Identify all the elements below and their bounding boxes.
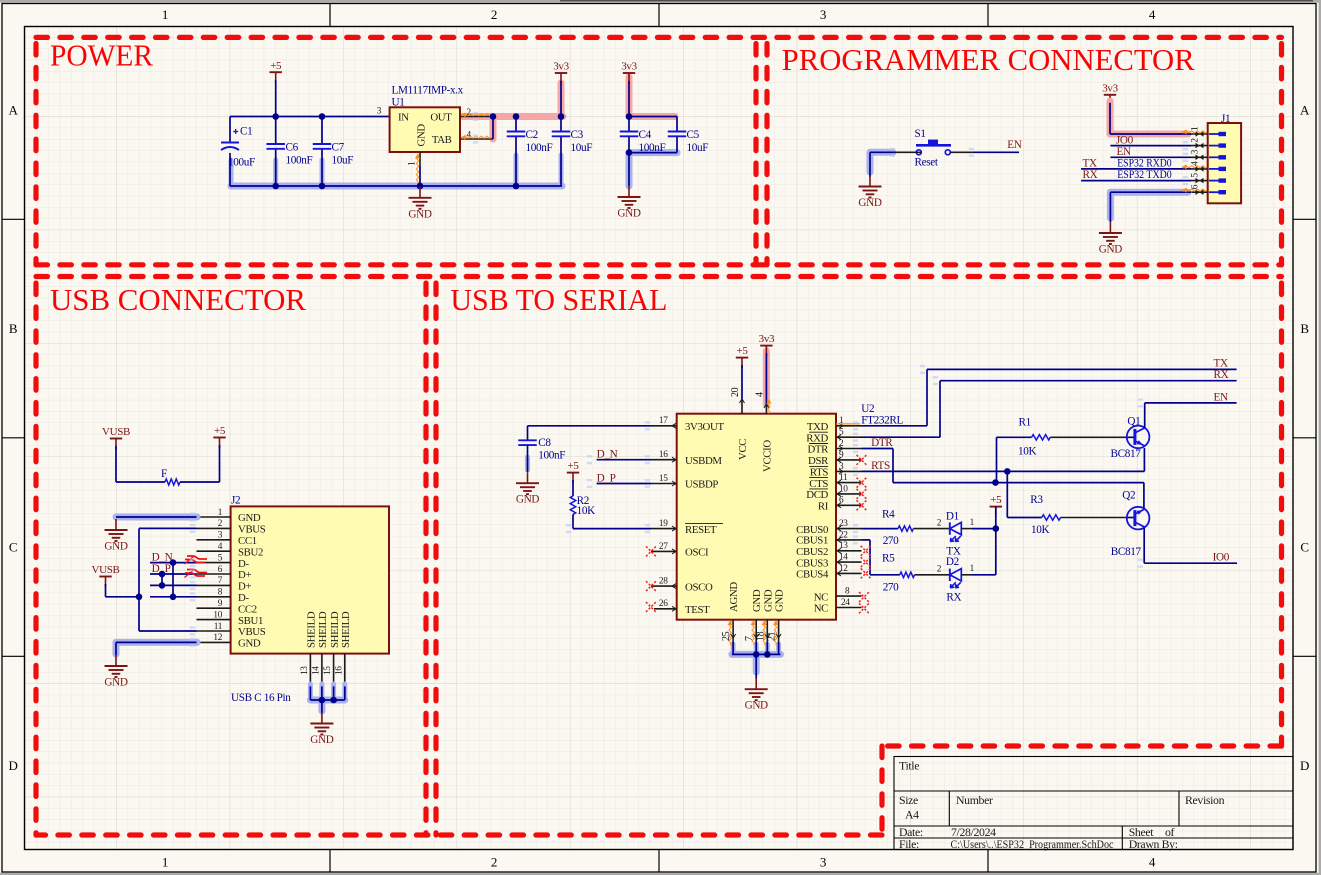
U2 pin 13 CBUS2 [836, 550, 862, 552]
svg-text:100uF: 100uF [228, 157, 255, 169]
svg-text:USB TO SERIAL: USB TO SERIAL [450, 283, 667, 317]
U2 pin 10 DCD [836, 493, 862, 495]
svg-text:14: 14 [839, 553, 848, 563]
svg-text:2: 2 [1191, 138, 1201, 143]
svg-text:File:: File: [899, 837, 919, 851]
svg-text:VBUS: VBUS [238, 524, 266, 536]
svg-text:D+: D+ [238, 581, 251, 593]
svg-text:Q2: Q2 [1122, 489, 1135, 501]
transistor Q2 [1127, 507, 1150, 530]
U2 pin 3 RTS wire [836, 470, 862, 472]
svg-text:4: 4 [1149, 855, 1156, 870]
svg-text:15: 15 [659, 474, 668, 484]
svg-text:U1: U1 [392, 97, 405, 109]
svg-text:VCC: VCC [737, 439, 749, 460]
connector J2 [231, 506, 389, 653]
wire D- pair vertical [172, 563, 174, 597]
wire R4 to D1 [913, 528, 949, 530]
J2 pin 5 D- [197, 562, 231, 564]
svg-text:4: 4 [1149, 7, 1156, 22]
J1 pin 1 [1191, 133, 1208, 135]
J1 pin 2 [1191, 145, 1208, 147]
wire D+ pair vertical [161, 574, 163, 585]
svg-text:D1: D1 [946, 510, 959, 522]
U1 pin 4 wire [460, 138, 493, 140]
wire D_N pin5 [150, 562, 197, 564]
svg-text:20: 20 [730, 387, 741, 397]
svg-text:U2: U2 [861, 403, 874, 415]
svg-text:+5: +5 [270, 60, 282, 72]
svg-text:JO0: JO0 [1116, 135, 1134, 147]
ground symbol J1 [1109, 222, 1111, 233]
svg-text:C:\Users\..\ESP32_Programmer.S: C:\Users\..\ESP32_Programmer.SchDoc [951, 837, 1114, 851]
svg-text:4: 4 [754, 392, 765, 397]
svg-text:D_P: D_P [597, 472, 616, 484]
svg-text:PROGRAMMER CONNECTOR: PROGRAMMER CONNECTOR [782, 43, 1196, 77]
svg-text:Revision: Revision [1185, 793, 1225, 807]
net highlight GND (U2 bottom) [731, 644, 736, 654]
svg-text:SBU1: SBU1 [238, 615, 263, 627]
frame column ticks [329, 4, 331, 27]
svg-text:Title: Title [899, 759, 919, 773]
svg-text:10: 10 [839, 484, 848, 494]
power port 3v3 (VCCIO) [760, 345, 772, 347]
svg-text:R3: R3 [1030, 494, 1043, 506]
net highlight GND (C4) [629, 149, 677, 156]
svg-text:27: 27 [659, 542, 668, 552]
svg-text:10K: 10K [1018, 446, 1036, 458]
svg-text:3v3: 3v3 [759, 333, 775, 345]
U2 pin 19 RESET wire [572, 514, 574, 528]
S1 left pin wire to ground [893, 151, 922, 153]
svg-text:11: 11 [839, 473, 848, 483]
svg-text:D-: D- [238, 558, 249, 570]
svg-text:USB C 16 Pin: USB C 16 Pin [231, 692, 291, 704]
svg-text:12: 12 [839, 564, 848, 574]
svg-text:3: 3 [377, 106, 382, 116]
net highlight GND (J2 pin12) [116, 639, 197, 646]
power port +5 (leds) [990, 506, 1002, 508]
svg-text:TAB: TAB [432, 134, 452, 146]
wire VBUS vertical [139, 527, 197, 529]
svg-text:ESP32 TXD0: ESP32 TXD0 [1117, 169, 1172, 181]
S1 right pin wire EN [951, 151, 973, 153]
svg-text:DSR: DSR [808, 455, 829, 467]
J2 pin 4 SBU2 [197, 550, 231, 552]
transistor Q1 [1127, 426, 1150, 449]
svg-text:24: 24 [841, 598, 850, 608]
diode D1 (TX led) [949, 522, 951, 534]
svg-text:OSCI: OSCI [685, 547, 709, 559]
J1 pin 5 [1191, 180, 1208, 182]
differential pair marker pin5 [187, 556, 207, 559]
svg-text:10uF: 10uF [332, 155, 354, 167]
U2 pin 22 CBUS1 wire [836, 539, 862, 541]
U2 pin 1 TXD wire [836, 425, 862, 427]
svg-text:17: 17 [659, 416, 668, 426]
svg-text:D: D [8, 758, 17, 773]
svg-text:TEST: TEST [685, 604, 710, 616]
svg-text:GND: GND [416, 124, 428, 147]
svg-text:+5: +5 [214, 425, 226, 437]
svg-text:RI: RI [818, 501, 829, 513]
svg-text:TXD: TXD [807, 421, 829, 433]
regulator U1 [390, 107, 460, 152]
svg-text:EN: EN [1007, 139, 1021, 151]
svg-text:1: 1 [1191, 126, 1201, 131]
wire D2 to +5 [961, 574, 972, 576]
svg-text:D2: D2 [946, 556, 959, 568]
U2 pin 26 TEST [654, 608, 677, 610]
svg-text:GND: GND [104, 677, 127, 689]
svg-text:10K: 10K [577, 505, 595, 517]
svg-text:D+: D+ [238, 569, 251, 581]
wire J2 pin1 ground [116, 516, 197, 518]
J1 pin 6 [1191, 191, 1208, 193]
svg-text:DTR: DTR [871, 437, 893, 449]
svg-text:RTS: RTS [810, 467, 828, 479]
net highlight 3v3 (J1) [1107, 101, 1114, 134]
net highlight 3v3 (C4 C5) [626, 77, 633, 117]
wire +5 to input rail [275, 80, 277, 117]
svg-text:2: 2 [839, 439, 844, 449]
ground symbol U2 [755, 678, 757, 689]
svg-text:+5: +5 [736, 345, 748, 357]
svg-text:2: 2 [491, 7, 497, 22]
svg-text:10uF: 10uF [687, 142, 709, 154]
svg-text:EN: EN [1214, 392, 1228, 404]
svg-text:3: 3 [839, 462, 844, 472]
svg-text:GND: GND [1099, 244, 1122, 256]
power port +5 (input) [270, 71, 282, 73]
J2 pin 14 SHEILD [321, 654, 323, 687]
svg-text:3v3: 3v3 [1102, 82, 1118, 94]
svg-text:DCD: DCD [806, 489, 828, 501]
fuse F [115, 446, 117, 482]
svg-text:CTS: CTS [809, 478, 828, 490]
junction D1 +5 [993, 525, 1000, 532]
junction shield bus [319, 697, 326, 704]
J2 pin 9 CC2 [197, 607, 231, 609]
net highlight GND (S1) [870, 149, 893, 156]
svg-text:SHEILD: SHEILD [329, 611, 341, 648]
svg-text:S1: S1 [915, 128, 926, 140]
svg-text:1: 1 [970, 564, 975, 574]
svg-text:GND: GND [408, 208, 431, 220]
net highlight GND (J1) [1110, 189, 1188, 196]
resistor R4 [898, 526, 913, 531]
net highlight GND (shield) [308, 684, 313, 700]
svg-text:14: 14 [311, 666, 321, 675]
junction U1 output [490, 113, 497, 120]
svg-text:10uF: 10uF [571, 142, 593, 154]
J2 pin 1 GND [197, 516, 231, 518]
wire +5 led rail [995, 507, 997, 575]
wire C4 C5 ground [629, 152, 677, 154]
ground symbol J2 pin12 [115, 655, 117, 666]
svg-text:A: A [1300, 103, 1310, 118]
svg-text:C4: C4 [639, 129, 652, 141]
svg-text:RX: RX [1083, 169, 1098, 181]
J2 pin 7 D+ [197, 584, 231, 586]
junction U2 ground bus [753, 651, 760, 658]
svg-text:NC: NC [814, 603, 828, 615]
compile marks [190, 512, 195, 521]
svg-text:5: 5 [1191, 173, 1201, 178]
svg-text:CBUS4: CBUS4 [796, 569, 829, 581]
capacitor C7 leads [321, 117, 323, 145]
capacitor C5 [668, 131, 687, 133]
svg-text:RTS: RTS [871, 460, 890, 472]
U2 pin 27 OSCI [651, 550, 677, 552]
svg-text:EN: EN [1117, 146, 1131, 158]
junction VBUS [136, 594, 143, 601]
power port 3v3 (second) [623, 72, 635, 74]
capacitor C4 leads [628, 117, 630, 132]
J2 pin 12 GND [197, 641, 231, 643]
wire EN line [1145, 402, 1237, 404]
svg-text:CC1: CC1 [238, 535, 257, 547]
svg-text:CBUS1: CBUS1 [796, 535, 828, 547]
wire Q1 collector EN [1144, 403, 1146, 428]
power port 3v3 (J1) [1104, 94, 1116, 96]
svg-text:13: 13 [300, 666, 310, 675]
IC U2 FT232RL [677, 414, 836, 620]
U2 pin 23 CBUS0 wire [836, 528, 862, 530]
U2 pin 5 RXD wire [836, 436, 862, 438]
ground symbol U1 [419, 187, 421, 198]
resistor R1 [996, 437, 998, 482]
svg-text:CBUS2: CBUS2 [796, 546, 828, 558]
wire 3v3 riser [560, 81, 562, 117]
U2 pin 28 OSCO [651, 585, 677, 587]
wire J2 pin12 ground [116, 641, 197, 643]
svg-text:SHEILD: SHEILD [340, 611, 352, 648]
svg-text:D: D [1300, 758, 1309, 773]
capacitor C6 leads [275, 117, 277, 145]
svg-text:7: 7 [218, 576, 223, 586]
svg-text:3v3: 3v3 [553, 61, 569, 73]
junction differential pairs [170, 559, 177, 566]
svg-text:6: 6 [1191, 184, 1201, 189]
svg-text:+5: +5 [567, 460, 579, 472]
svg-text:C: C [9, 540, 17, 555]
svg-text:AGND: AGND [728, 582, 740, 612]
junction RTS R3 [1004, 468, 1011, 475]
svg-text:1: 1 [970, 518, 975, 528]
J2 pin 10 SBU1 [197, 619, 231, 621]
svg-text:LM1117IMP-x.x: LM1117IMP-x.x [392, 85, 464, 97]
wire J1 pin4 ESP32 RXD0 [1081, 168, 1191, 170]
U2 pin 2 DTR wire [836, 448, 862, 450]
svg-text:VCCIO: VCCIO [761, 440, 773, 472]
svg-text:16: 16 [659, 450, 668, 460]
svg-text:16: 16 [334, 666, 344, 675]
U1 pin 2 wire [460, 116, 493, 118]
svg-text:ESP32 RXD0: ESP32 RXD0 [1117, 158, 1172, 170]
junction input rail [272, 113, 279, 120]
power port VUSB (fuse) [110, 438, 122, 440]
svg-text:USB CONNECTOR: USB CONNECTOR [50, 283, 307, 317]
J2 pin 3 CC1 [197, 539, 231, 541]
ground symbol S1 [869, 176, 871, 187]
svg-text:8: 8 [845, 587, 850, 597]
svg-text:GND: GND [774, 589, 786, 612]
U2 pin 6 RI [836, 504, 862, 506]
svg-text:RX: RX [1214, 369, 1229, 381]
svg-text:A4: A4 [905, 807, 919, 821]
U1 pin 1 GND wire [419, 152, 421, 166]
svg-text:Drawn By:: Drawn By: [1129, 837, 1178, 851]
frame row ticks [2, 218, 25, 220]
ground symbol J2 pin1 [115, 519, 117, 530]
resistor R3 [1006, 471, 1008, 517]
wire D1 to +5 [961, 528, 972, 530]
svg-text:C: C [1300, 540, 1308, 555]
svg-text:R4: R4 [882, 508, 895, 520]
U2 pin 15 USBDP wire [651, 483, 677, 485]
svg-text:10: 10 [213, 610, 222, 620]
power port +5 (R2) [567, 472, 579, 474]
J2 pin 6 D+ [197, 573, 231, 575]
svg-text:NC: NC [814, 591, 828, 603]
svg-text:9: 9 [218, 599, 223, 609]
svg-text:SBU2: SBU2 [238, 546, 263, 558]
svg-text:1: 1 [162, 855, 168, 870]
net highlight 3v3 (VCCIO) [763, 351, 770, 404]
differential pair marker pin6 [187, 570, 207, 573]
svg-text:IN: IN [398, 112, 409, 124]
svg-text:23: 23 [839, 519, 848, 529]
wire TX line [927, 368, 1237, 370]
U2 pin 12 CBUS4 [836, 572, 862, 574]
svg-text:270: 270 [883, 535, 899, 547]
svg-text:GND: GND [238, 638, 261, 650]
svg-text:3v3: 3v3 [621, 61, 637, 73]
svg-text:3: 3 [820, 7, 826, 22]
svg-text:FT232RL: FT232RL [861, 414, 903, 426]
wire J1 pin6 ground [1110, 191, 1191, 193]
junction C4 top [626, 113, 633, 120]
capacitor C3 leads [560, 117, 562, 132]
wire 3v3 to C4 C5 [628, 81, 630, 117]
svg-text:100nF: 100nF [538, 449, 565, 461]
capacitor C6 [266, 143, 285, 145]
svg-text:USBDM: USBDM [685, 455, 722, 467]
svg-text:100nF: 100nF [526, 142, 553, 154]
U2 pin 11 CTS [836, 482, 862, 484]
svg-text:C7: C7 [332, 142, 345, 154]
wire GND bus [230, 185, 562, 187]
svg-text:IO0: IO0 [1213, 552, 1230, 564]
svg-text:28: 28 [659, 577, 668, 587]
resistor R5 [900, 572, 915, 577]
svg-text:CC2: CC2 [238, 603, 257, 615]
wire R5 to D2 [915, 574, 950, 576]
svg-text:15: 15 [323, 666, 333, 675]
svg-text:J1: J1 [1221, 113, 1230, 125]
svg-text:C2: C2 [526, 129, 538, 141]
svg-text:VBUS: VBUS [238, 626, 266, 638]
wire shield ground bus [309, 686, 311, 700]
svg-text:A: A [8, 103, 18, 118]
svg-text:3: 3 [218, 531, 223, 541]
U2 pin 14 CBUS3 [836, 561, 862, 563]
ERC markers J1 pins [1182, 131, 1207, 133]
J2 pin 15 SHEILD [333, 654, 335, 687]
svg-text:C1: C1 [240, 126, 252, 138]
svg-text:4: 4 [467, 130, 472, 140]
wire J1 pin2 JO0 [1110, 145, 1191, 147]
svg-text:270: 270 [883, 581, 899, 593]
svg-text:3: 3 [820, 855, 826, 870]
svg-text:GND: GND [310, 734, 333, 746]
svg-text:+5: +5 [990, 494, 1002, 506]
svg-text:C8: C8 [538, 437, 551, 449]
svg-text:1: 1 [218, 508, 223, 518]
J2 pin 2 VBUS [197, 527, 231, 529]
svg-text:DTR: DTR [807, 444, 829, 456]
svg-text:GND: GND [238, 512, 261, 524]
svg-text:100nF: 100nF [286, 155, 313, 167]
svg-text:GND: GND [104, 541, 127, 553]
svg-text:B: B [1300, 321, 1309, 336]
svg-text:12: 12 [213, 633, 222, 643]
svg-text:6: 6 [839, 496, 844, 506]
svg-text:11: 11 [214, 622, 223, 632]
svg-text:RXD: RXD [806, 432, 828, 444]
wire pin8 [150, 596, 197, 598]
U2 pin 16 USBDM wire [651, 459, 677, 461]
U2 pin 9 DSR [836, 459, 862, 461]
svg-text:13: 13 [839, 541, 848, 551]
svg-text:Reset: Reset [915, 156, 939, 168]
svg-text:C3: C3 [571, 129, 584, 141]
power port VUSB (VBUS) [99, 576, 111, 578]
connector J1 [1208, 123, 1241, 203]
junction GND bus [272, 183, 279, 190]
net highlight GND (J2 pin1) [116, 514, 197, 521]
wire J1 pin5 ESP32 TXD0 [1081, 180, 1191, 182]
U2 pin 24 NC [836, 607, 862, 609]
svg-text:GND: GND [762, 589, 774, 612]
svg-text:C5: C5 [687, 129, 700, 141]
junction DTR R1 [992, 479, 999, 486]
capacitor C2 [507, 131, 526, 133]
svg-text:2: 2 [218, 519, 223, 529]
svg-text:10K: 10K [1031, 524, 1049, 536]
svg-text:22: 22 [839, 530, 848, 540]
svg-text:R1: R1 [1019, 417, 1031, 429]
svg-text:2: 2 [467, 108, 472, 118]
svg-text:8: 8 [218, 588, 223, 598]
net highlight GND (C8) [525, 457, 530, 470]
svg-text:F: F [161, 468, 167, 480]
svg-text:Number: Number [956, 793, 993, 807]
svg-text:RX: RX [946, 592, 961, 604]
capacitor C8 [518, 439, 537, 441]
svg-text:4: 4 [1191, 161, 1201, 166]
wire pin7 [150, 584, 197, 586]
svg-text:J2: J2 [231, 495, 240, 507]
capacitor C7 [313, 143, 332, 145]
svg-text:2: 2 [937, 565, 942, 575]
svg-text:26: 26 [659, 599, 668, 609]
J2 pin 11 VBUS [197, 630, 231, 632]
svg-text:4: 4 [218, 542, 223, 552]
power port 3v3 (first) [555, 72, 567, 74]
U2 bottom ground pins [732, 620, 734, 642]
